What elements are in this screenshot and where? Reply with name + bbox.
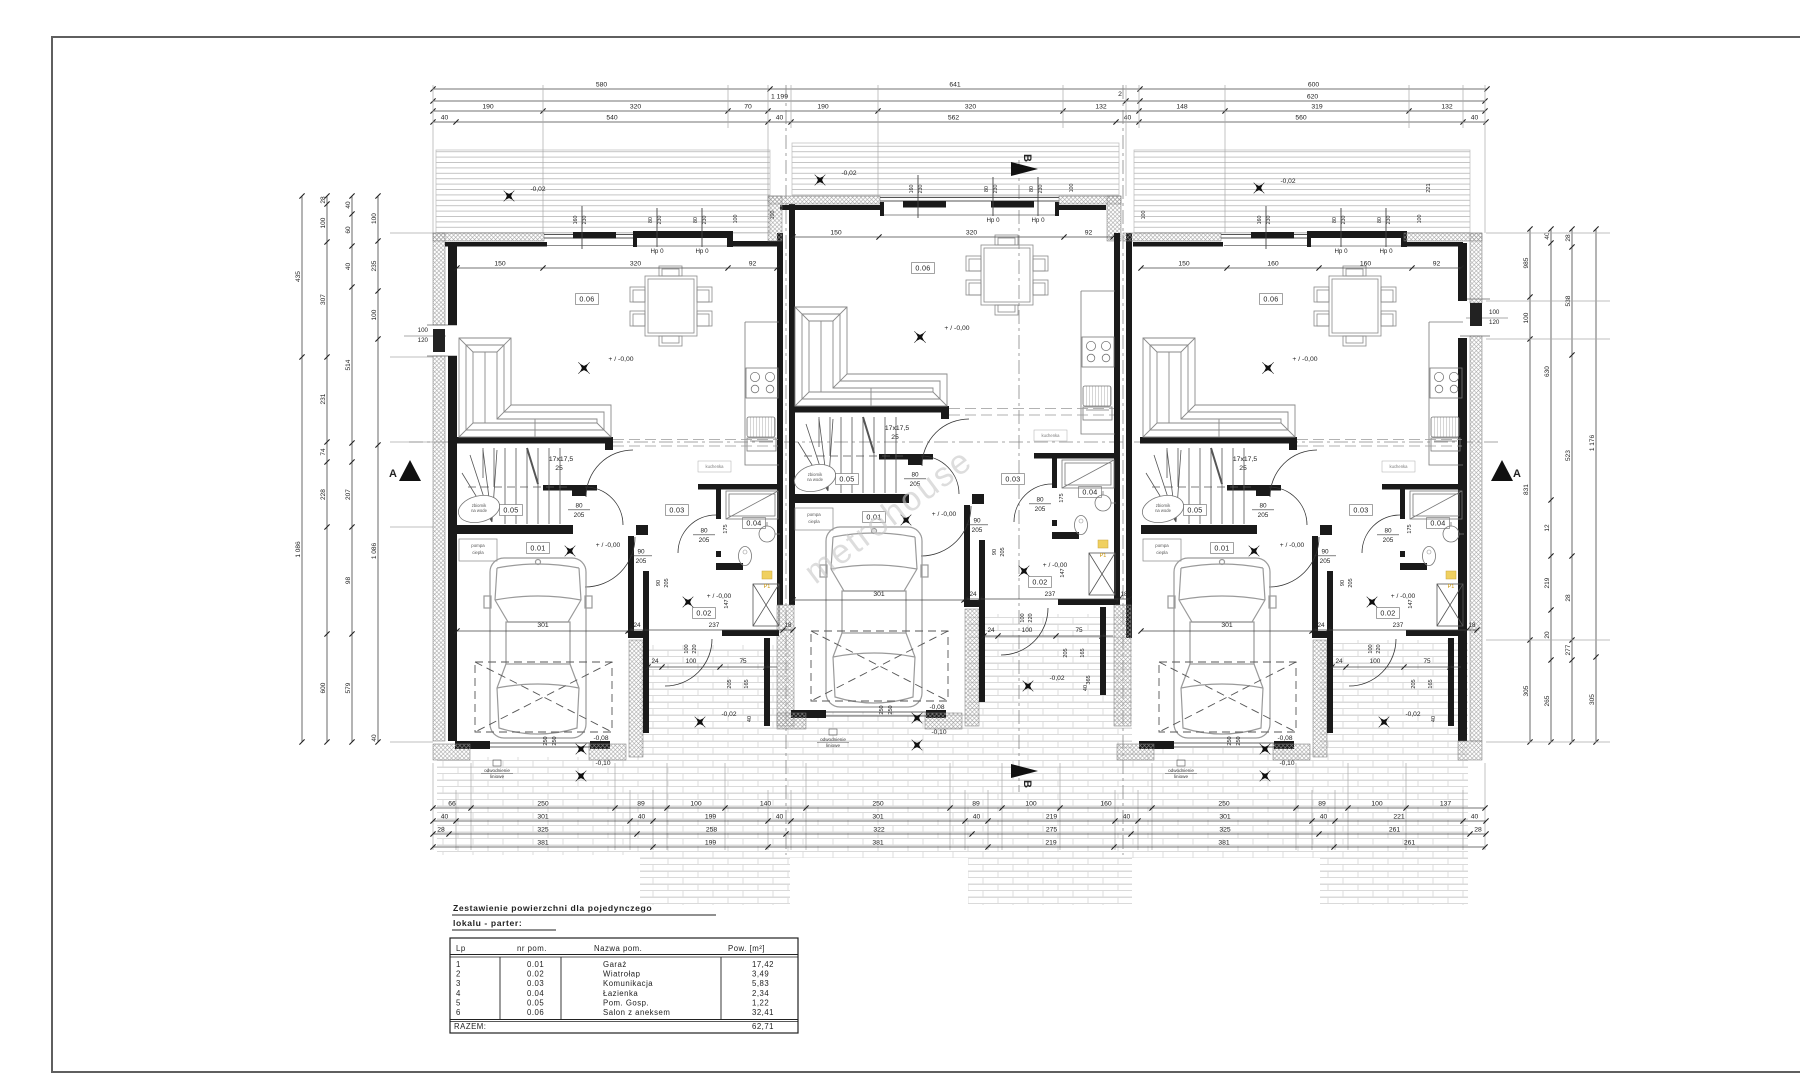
window in right wall unit3 xyxy=(1470,303,1482,326)
svg-text:28: 28 xyxy=(437,827,445,834)
svg-text:1: 1 xyxy=(456,960,461,969)
svg-text:70: 70 xyxy=(744,104,752,111)
svg-text:2: 2 xyxy=(1118,91,1122,98)
bottom dimension row 4 xyxy=(433,846,1485,848)
unit 1 interior xyxy=(454,206,795,787)
svg-text:100: 100 xyxy=(418,327,429,334)
svg-text:219: 219 xyxy=(1046,814,1058,821)
svg-text:2: 2 xyxy=(456,970,461,979)
svg-text:562: 562 xyxy=(948,115,960,122)
svg-text:261: 261 xyxy=(1389,827,1401,834)
svg-text:74: 74 xyxy=(320,448,327,456)
svg-text:320: 320 xyxy=(630,104,642,111)
left dimension line 4 xyxy=(377,196,379,742)
svg-text:98: 98 xyxy=(345,577,352,585)
svg-text:92: 92 xyxy=(1433,261,1441,268)
svg-text:40: 40 xyxy=(1123,814,1131,821)
svg-text:600: 600 xyxy=(320,682,327,693)
svg-text:1,22: 1,22 xyxy=(752,998,769,1007)
section marker A left xyxy=(399,460,421,481)
svg-text:381: 381 xyxy=(872,840,884,847)
svg-text:600: 600 xyxy=(1308,82,1320,89)
svg-text:150: 150 xyxy=(830,230,842,237)
svg-text:-0,02: -0,02 xyxy=(530,186,545,193)
party wall unit2/unit3 xyxy=(1114,233,1120,605)
top dimension extension lines xyxy=(433,85,1485,233)
svg-text:265: 265 xyxy=(1544,695,1551,706)
svg-text:40: 40 xyxy=(345,201,352,209)
svg-text:40: 40 xyxy=(345,263,352,271)
svg-text:540: 540 xyxy=(606,115,618,122)
wall: unit2 top right insulation xyxy=(1059,196,1121,204)
svg-text:4: 4 xyxy=(456,989,461,998)
section marker B bottom xyxy=(1011,764,1038,778)
svg-text:66: 66 xyxy=(448,801,456,808)
svg-text:985: 985 xyxy=(1523,257,1530,268)
svg-text:320: 320 xyxy=(966,230,978,237)
svg-text:305: 305 xyxy=(1589,694,1596,705)
svg-text:0.05: 0.05 xyxy=(527,998,544,1007)
svg-text:17,42: 17,42 xyxy=(752,960,774,969)
top dimension row 4 xyxy=(433,121,1486,123)
svg-text:132: 132 xyxy=(1095,104,1107,111)
svg-text:148: 148 xyxy=(1176,104,1188,111)
svg-text:-0,02: -0,02 xyxy=(841,170,856,177)
svg-text:365: 365 xyxy=(1086,675,1092,684)
svg-text:435: 435 xyxy=(295,271,302,282)
svg-text:0.01: 0.01 xyxy=(527,960,544,969)
svg-text:B: B xyxy=(1021,780,1033,788)
right dimension line 1 xyxy=(1529,229,1531,742)
svg-text:Pom. Gosp.: Pom. Gosp. xyxy=(603,998,649,1007)
svg-text:100: 100 xyxy=(1141,211,1147,220)
svg-text:100: 100 xyxy=(770,211,776,220)
wall: unit3 porch right xyxy=(1448,638,1454,726)
section line A-A horizontal xyxy=(409,441,1502,443)
svg-text:137: 137 xyxy=(1440,801,1452,808)
wall: unit3 right structural xyxy=(1458,243,1467,301)
svg-text:277: 277 xyxy=(1565,644,1572,655)
svg-text:100: 100 xyxy=(371,213,378,224)
level -0,02 unit2 terrace xyxy=(809,169,830,190)
wall: unit2 top-right corner insulation xyxy=(1107,196,1121,241)
top dimension row 1 (580 / 641 / 600) xyxy=(433,88,1487,90)
svg-text:140: 140 xyxy=(760,801,772,808)
svg-text:40: 40 xyxy=(973,814,981,821)
window band unit3 top dark xyxy=(1307,231,1311,247)
svg-text:1 176: 1 176 xyxy=(1589,434,1596,451)
svg-text:160: 160 xyxy=(1267,261,1279,268)
svg-text:221: 221 xyxy=(1393,814,1405,821)
svg-text:62,71: 62,71 xyxy=(752,1022,774,1031)
svg-text:28: 28 xyxy=(1565,594,1572,602)
svg-text:1 086: 1 086 xyxy=(371,542,378,559)
svg-text:1 086: 1 086 xyxy=(295,541,302,558)
top dimension row 2 (1 199 / 2 / 620) xyxy=(433,100,1485,102)
wall: unit3 top right insulation xyxy=(1404,233,1482,241)
svg-text:100: 100 xyxy=(1025,801,1037,808)
svg-text:40: 40 xyxy=(1471,115,1479,122)
svg-text:190: 190 xyxy=(817,104,829,111)
window band unit1 top dark (Hp windows) xyxy=(633,231,637,247)
svg-text:305: 305 xyxy=(1523,685,1530,696)
svg-text:199: 199 xyxy=(705,814,717,821)
left extension lines xyxy=(390,233,433,742)
svg-text:630: 630 xyxy=(1544,366,1551,377)
svg-text:92: 92 xyxy=(749,261,757,268)
wall: unit3 top insulation xyxy=(1123,233,1221,241)
svg-text:120: 120 xyxy=(1489,319,1500,326)
svg-text:301: 301 xyxy=(537,814,549,821)
unit 3 interior xyxy=(1138,206,1479,787)
svg-text:250: 250 xyxy=(1218,801,1230,808)
level -0,02 unit1 porch xyxy=(689,711,710,732)
svg-text:A: A xyxy=(389,468,397,480)
wall: unit1 bath bottom xyxy=(722,630,779,636)
area table box xyxy=(450,938,798,1033)
svg-text:40: 40 xyxy=(1320,814,1328,821)
svg-text:228: 228 xyxy=(320,489,327,500)
wall: unit3 exterior right insulation xyxy=(1470,233,1482,303)
svg-text:132: 132 xyxy=(1441,104,1453,111)
bottom extension lines xyxy=(433,763,1485,850)
section line B-B vertical xyxy=(1018,160,1020,792)
party wall unit1/unit2 xyxy=(777,233,783,605)
section marker B top xyxy=(1011,162,1038,176)
svg-text:100: 100 xyxy=(1489,309,1500,316)
svg-text:0.04: 0.04 xyxy=(527,989,544,998)
svg-text:20: 20 xyxy=(1544,631,1551,639)
svg-text:2,34: 2,34 xyxy=(752,989,769,998)
svg-text:150: 150 xyxy=(494,261,506,268)
svg-text:Pow. [m²]: Pow. [m²] xyxy=(728,944,765,953)
svg-text:190: 190 xyxy=(482,104,494,111)
party wall porch insulation unit2/unit3 xyxy=(1114,605,1131,726)
svg-text:221: 221 xyxy=(1426,183,1432,192)
svg-text:100: 100 xyxy=(1371,801,1383,808)
brick paving areas xyxy=(437,757,640,855)
svg-text:-0,02: -0,02 xyxy=(721,711,736,718)
dim: unit2 living 150/320/92 xyxy=(793,236,1113,238)
wall: unit1 top insulation+structure xyxy=(433,233,544,241)
right extension lines xyxy=(1486,233,1610,742)
property line unit1/unit2 xyxy=(785,85,787,855)
svg-text:261: 261 xyxy=(1404,840,1416,847)
level -0,02 unit1 terrace xyxy=(498,185,519,206)
svg-text:207: 207 xyxy=(345,489,352,500)
wall: unit2 porch left xyxy=(964,600,981,607)
bottom dimension row 2 xyxy=(433,820,1486,822)
svg-text:40: 40 xyxy=(776,115,784,122)
svg-text:40: 40 xyxy=(441,115,449,122)
wall: unit3 bottom-right corner insulation xyxy=(1458,741,1482,760)
svg-text:100: 100 xyxy=(320,217,327,228)
svg-text:92: 92 xyxy=(1085,230,1093,237)
wall: unit1 porch left xyxy=(628,631,645,638)
svg-text:381: 381 xyxy=(537,840,549,847)
wall: unit3 garage bottom xyxy=(1139,741,1174,749)
svg-text:641: 641 xyxy=(949,82,961,89)
svg-text:381: 381 xyxy=(1218,840,1230,847)
svg-text:523: 523 xyxy=(1565,450,1572,461)
svg-text:Komunikacja: Komunikacja xyxy=(603,979,653,988)
roof hatch terrace unit 3 xyxy=(1134,150,1470,233)
svg-text:Nazwa pom.: Nazwa pom. xyxy=(594,944,642,953)
property line unit2/unit3 xyxy=(1122,85,1124,855)
svg-text:319: 319 xyxy=(1311,104,1323,111)
svg-text:40: 40 xyxy=(776,814,784,821)
svg-text:32,41: 32,41 xyxy=(752,1008,774,1017)
top dimension row 3 xyxy=(433,110,1485,112)
svg-text:120: 120 xyxy=(418,337,429,344)
svg-text:275: 275 xyxy=(1046,827,1058,834)
svg-text:28: 28 xyxy=(1565,234,1572,242)
svg-text:89: 89 xyxy=(972,801,980,808)
svg-text:831: 831 xyxy=(1523,484,1530,495)
svg-text:219: 219 xyxy=(1544,577,1551,588)
svg-text:5,83: 5,83 xyxy=(752,979,769,988)
window band unit3 top xyxy=(1221,232,1311,246)
level -0,02 unit3 terrace xyxy=(1248,177,1269,198)
svg-text:Garaż: Garaż xyxy=(603,960,627,969)
roof hatch terrace unit 2 xyxy=(792,143,1119,196)
svg-text:6: 6 xyxy=(456,1008,461,1017)
svg-text:514: 514 xyxy=(345,359,352,370)
svg-text:258: 258 xyxy=(706,827,718,834)
svg-text:40: 40 xyxy=(1471,814,1479,821)
wall: unit3 porch left xyxy=(1312,631,1329,638)
bottom dimension row 1 xyxy=(433,807,1485,809)
left dimension line 3 xyxy=(351,196,353,742)
right dimension line 4 xyxy=(1595,229,1597,742)
level -0,02 unit2 porch xyxy=(1017,675,1038,696)
wall: unit2 top insulation xyxy=(768,196,880,204)
svg-text:nr pom.: nr pom. xyxy=(517,944,547,953)
svg-text:A: A xyxy=(1513,468,1521,480)
dim: unit1 living 150/320/92 xyxy=(457,267,777,269)
wall: unit2 top-left corner insulation xyxy=(768,196,782,241)
svg-text:620: 620 xyxy=(1307,94,1319,101)
svg-text:199: 199 xyxy=(705,840,717,847)
right dimension line 2 xyxy=(1550,229,1552,742)
svg-text:lokalu - parter:: lokalu - parter: xyxy=(453,918,522,928)
section marker A right xyxy=(1491,460,1513,481)
svg-text:100: 100 xyxy=(371,309,378,320)
svg-text:40: 40 xyxy=(1124,115,1132,122)
svg-text:-0,02: -0,02 xyxy=(1280,178,1295,185)
svg-text:301: 301 xyxy=(872,814,884,821)
svg-text:Lp: Lp xyxy=(456,944,466,953)
left dimension line 2 xyxy=(326,196,328,742)
roof hatch terrace unit 1 xyxy=(436,150,770,233)
svg-text:Łazienka: Łazienka xyxy=(603,989,638,998)
wall: unit2 porch right xyxy=(1100,607,1106,695)
svg-text:250: 250 xyxy=(537,801,549,808)
svg-text:325: 325 xyxy=(537,827,549,834)
level -0,02 unit3 porch xyxy=(1373,711,1394,732)
svg-text:60: 60 xyxy=(345,226,352,234)
left dimension line 1 (435 / 1 086) xyxy=(301,196,303,742)
window in left wall unit1 xyxy=(433,329,445,352)
wall: unit1 exterior left insulation xyxy=(433,233,445,325)
svg-text:100: 100 xyxy=(690,801,702,808)
svg-text:-0,02: -0,02 xyxy=(1405,711,1420,718)
wall: unit2 garage bottom xyxy=(791,710,826,718)
svg-text:RAZEM:: RAZEM: xyxy=(454,1022,486,1031)
right dimension line 3 xyxy=(1571,229,1573,742)
svg-text:28: 28 xyxy=(320,196,327,204)
svg-text:40: 40 xyxy=(638,814,646,821)
svg-text:3: 3 xyxy=(456,979,461,988)
window band unit2 top xyxy=(880,198,1059,217)
svg-text:B: B xyxy=(1021,154,1033,162)
svg-text:Zestawienie powierzchni dla po: Zestawienie powierzchni dla pojedynczego xyxy=(453,903,652,913)
svg-text:Wiatrołap: Wiatrołap xyxy=(603,970,641,979)
svg-text:40: 40 xyxy=(371,734,378,742)
svg-text:560: 560 xyxy=(1295,115,1307,122)
svg-text:250: 250 xyxy=(872,801,884,808)
svg-text:150: 150 xyxy=(1178,261,1190,268)
svg-text:320: 320 xyxy=(630,261,642,268)
svg-text:12: 12 xyxy=(1544,524,1551,532)
window band unit1 top (glazing) xyxy=(544,235,637,239)
svg-text:307: 307 xyxy=(320,294,327,305)
svg-text:580: 580 xyxy=(596,82,608,89)
party wall porch insulation (between porches) xyxy=(777,605,794,726)
wall: unit1 left structural xyxy=(448,243,457,325)
svg-text:89: 89 xyxy=(1318,801,1326,808)
svg-text:325: 325 xyxy=(1219,827,1231,834)
wall: unit1 top right segment xyxy=(733,241,777,247)
svg-text:100: 100 xyxy=(1523,312,1530,323)
unit 2 interior xyxy=(790,175,1131,756)
svg-text:320: 320 xyxy=(965,104,977,111)
svg-text:89: 89 xyxy=(637,801,645,808)
svg-text:301: 301 xyxy=(1219,814,1231,821)
wall: unit1 porch right xyxy=(764,638,770,726)
svg-text:235: 235 xyxy=(371,260,378,271)
svg-text:0.03: 0.03 xyxy=(527,979,544,988)
svg-text:0.02: 0.02 xyxy=(527,970,544,979)
svg-text:-0,02: -0,02 xyxy=(1049,675,1064,682)
svg-text:Salon z aneksem: Salon z aneksem xyxy=(603,1008,670,1017)
svg-text:160: 160 xyxy=(1360,261,1372,268)
bottom dimension row 3 xyxy=(433,833,1486,835)
svg-text:28: 28 xyxy=(1474,827,1482,834)
svg-text:219: 219 xyxy=(1045,840,1057,847)
svg-text:231: 231 xyxy=(320,393,327,404)
svg-text:160: 160 xyxy=(1100,801,1112,808)
svg-text:5: 5 xyxy=(456,998,461,1007)
wall: unit2 bath bottom xyxy=(1058,599,1115,605)
wall: unit3 bath bottom xyxy=(1406,630,1463,636)
svg-text:40: 40 xyxy=(441,814,449,821)
svg-text:3,49: 3,49 xyxy=(752,970,769,979)
svg-text:0.06: 0.06 xyxy=(527,1008,544,1017)
svg-text:579: 579 xyxy=(345,682,352,693)
dim: unit3 living 150/160/160/92 xyxy=(1141,267,1461,269)
wall: unit1 garage bottom xyxy=(455,741,490,749)
svg-text:322: 322 xyxy=(873,827,885,834)
